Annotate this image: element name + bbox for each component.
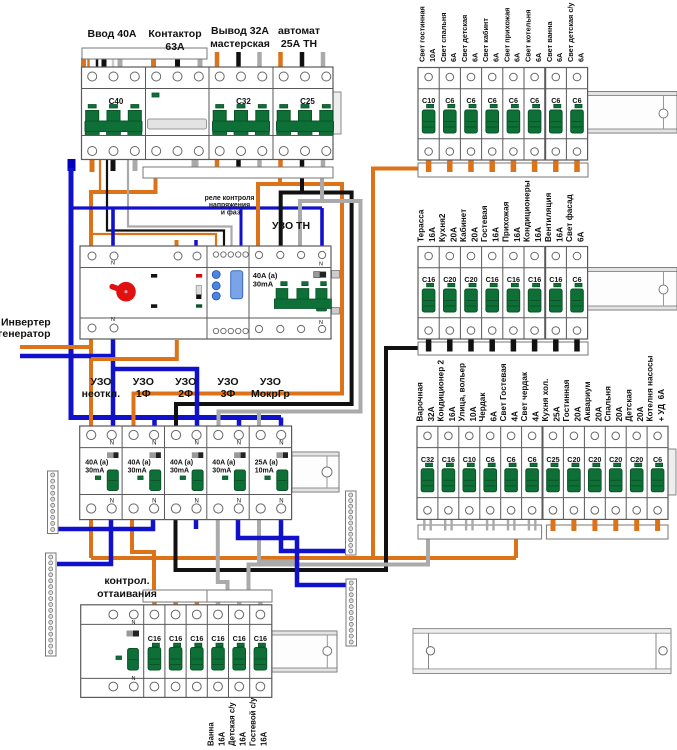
wire socket breaker 4 pins b — [492, 520, 494, 531]
wire neutral drop to relay — [240, 208, 243, 247]
wire group2 breaker 4 output — [489, 340, 495, 352]
DIN rail right of RCD row — [292, 452, 339, 492]
wire neutral drop to switch N — [111, 208, 115, 247]
RCD УЗО 2Ф 40A (a) 30mA — [170, 430, 203, 513]
svg-text:Свет спальня: Свет спальня — [439, 12, 448, 62]
breaker C16 Ванна 16А — [211, 610, 224, 691]
svg-text:C20: C20 — [609, 455, 622, 464]
svg-text:Свет котельня: Свет котельня — [524, 10, 533, 62]
svg-text:N: N — [319, 320, 323, 326]
svg-text:Гостинная: Гостинная — [562, 379, 571, 421]
RCD УЗО ТН 40A 30mA — [253, 251, 332, 332]
wire socket breaker 1 pins a — [423, 520, 425, 531]
wire L2 busbar drop — [300, 177, 304, 193]
RCD row assembly (5 УЗО) — [80, 426, 292, 520]
svg-text:C16: C16 — [169, 634, 182, 643]
svg-text:Гостевая: Гостевая — [480, 205, 489, 242]
wire УЗО 1Ф out orange — [132, 519, 154, 590]
svg-text:N: N — [237, 499, 241, 505]
empty DIN rail bottom right — [413, 629, 671, 674]
svg-text:C16: C16 — [233, 634, 246, 643]
svg-text:1Ф: 1Ф — [136, 388, 151, 400]
wire stub Вывод L1 above breaker — [215, 52, 220, 68]
wire input L3 gray stub — [133, 159, 138, 171]
svg-text:40A (a): 40A (a) — [128, 460, 151, 467]
voltage control relay (реле контроля напряжения и фаз) — [212, 252, 248, 334]
wire УЗО 2Ф out black to group2 busbar — [176, 348, 419, 570]
DIN rail stub right of 12-breaker group — [668, 449, 676, 495]
wire neutral drop to УЗО ТН N — [320, 208, 324, 248]
wire socket breaker 5 pins b — [513, 520, 515, 531]
svg-text:6А: 6А — [492, 52, 501, 62]
svg-text:C16: C16 — [549, 275, 562, 284]
breaker Котелня насосы + УД&#160;&#160;6А (C6) — [651, 432, 664, 514]
svg-text:мастерская: мастерская — [210, 38, 270, 50]
labels 12-group — [416, 382, 437, 422]
wire L1 thin link — [99, 160, 101, 192]
wire input L1 orange to transfer switch — [91, 178, 156, 247]
svg-text:N: N — [152, 499, 156, 505]
svg-text:C6: C6 — [530, 96, 539, 105]
wire feed contactor L1 — [151, 58, 156, 68]
svg-text:Кондиционер 2: Кондиционер 2 — [436, 359, 445, 421]
breaker C16 Детская с/у 16А — [233, 610, 246, 691]
svg-text:N: N — [319, 262, 323, 268]
terminal block left 2 — [46, 553, 57, 656]
wire neutral drop УЗО 3Ф — [237, 418, 242, 427]
svg-text:6А: 6А — [576, 52, 585, 62]
svg-text:C10: C10 — [422, 96, 435, 105]
svg-text:УЗО: УЗО — [90, 376, 111, 388]
svg-text:C6: C6 — [653, 455, 662, 464]
terminal block left 1 — [48, 471, 59, 534]
svg-text:N: N — [111, 317, 115, 323]
wire group4 L1 out — [278, 158, 283, 168]
RCD УЗО МокрГр 25A (a) 10mA — [255, 430, 288, 513]
svg-text:неоткл.: неоткл. — [82, 388, 121, 400]
socket 12-breaker group — [417, 426, 668, 519]
svg-text:16А: 16А — [492, 227, 501, 242]
wire socket breaker 1 pins b — [430, 520, 432, 531]
blue supply lug — [68, 159, 76, 171]
breaker Кухня хол. 25А (C25) — [546, 432, 559, 514]
wire feed contactor L2 — [175, 58, 180, 68]
svg-text:16А: 16А — [239, 731, 248, 746]
svg-text:25A (a): 25A (a) — [255, 460, 278, 467]
wire socket breaker 3 pins b — [471, 520, 473, 531]
svg-text:16А: 16А — [513, 227, 522, 242]
svg-text:4А: 4А — [511, 411, 520, 422]
wire input L2 black stub — [111, 159, 116, 171]
svg-text:2Ф: 2Ф — [178, 388, 193, 400]
svg-text:УЗО: УЗО — [175, 376, 196, 388]
svg-text:C6: C6 — [551, 96, 560, 105]
wire feed L1b — [87, 58, 90, 68]
svg-text:Аквариум: Аквариум — [583, 381, 592, 421]
wire lighting breaker 7 output — [553, 160, 559, 172]
svg-text:напряжения: напряжения — [209, 202, 250, 209]
breaker Аквариум 20А (C20) — [588, 432, 601, 514]
wire L3 drop to УЗО МокрГр — [257, 411, 261, 426]
svg-text:Гостевой с/у: Гостевой с/у — [249, 697, 258, 746]
wire group2 breaker 1 output — [426, 340, 432, 352]
svg-text:C20: C20 — [443, 275, 456, 284]
wire group2 breaker 5 output — [511, 340, 517, 352]
wire L1 thin feed to relay — [91, 234, 216, 247]
wire stub автомат L1 above breaker — [278, 52, 283, 68]
wire feed L2b — [102, 58, 107, 68]
contactor 63А — [148, 72, 207, 156]
wire switch out N branch to УЗО 2Ф — [113, 369, 197, 426]
svg-text:Свет фасад: Свет фасад — [565, 194, 574, 242]
svg-text:6А: 6А — [555, 52, 564, 62]
wire switch out L to УЗО неоткл — [89, 339, 93, 426]
wire group2 breaker 6 output — [532, 340, 538, 352]
breaker Вывод 32А мастерская (C32, 3-pole) — [213, 72, 270, 156]
breaker Свет детская 6А (C6) — [465, 73, 478, 155]
svg-text:C20: C20 — [630, 455, 643, 464]
wire socket breaker 7 output — [551, 520, 556, 532]
svg-text:N: N — [279, 499, 283, 505]
wire socket breaker 9 output — [592, 520, 597, 532]
svg-text:20А: 20А — [471, 227, 480, 242]
svg-text:C20: C20 — [567, 455, 580, 464]
top breaker row assembly — [82, 67, 334, 160]
breaker Спальня 20А (C20) — [609, 432, 622, 514]
wire N УЗО неоткл to left block2 — [57, 519, 111, 564]
wire feed L2a — [96, 58, 99, 68]
svg-text:автомат: автомат — [278, 25, 320, 37]
breaker Гостевая 16А (C16) — [486, 252, 499, 334]
transfer switch / relay / УЗО ТН assembly — [80, 246, 331, 339]
wire main orange run to sockets busbar — [91, 556, 516, 560]
svg-text:контрол.: контрол. — [104, 575, 149, 587]
svg-text:63А: 63А — [165, 41, 185, 53]
svg-text:20А: 20А — [636, 406, 645, 421]
transfer switch Q1 (Инвертер/генератор changeover) — [88, 252, 202, 332]
wire defrost breaker 2 feed — [152, 601, 157, 606]
wire orange stub to switch c3 — [175, 240, 179, 247]
wire group2 breaker 2 output — [447, 340, 453, 352]
wire switch out L branch — [91, 340, 177, 359]
RCD УЗО 3Ф 40A (a) 30mA — [212, 430, 245, 513]
wire stub Вывод L2 above breaker — [236, 52, 241, 68]
wire L2 drop to УЗО ТН and 2Ф riser — [176, 193, 352, 427]
svg-text:N: N — [132, 620, 136, 626]
DIN rail stub right of top breaker row — [333, 92, 341, 134]
wire lighting breaker 1 output — [426, 160, 432, 172]
svg-text:C16: C16 — [528, 275, 541, 284]
svg-text:C6: C6 — [527, 455, 536, 464]
busbar below top row — [143, 167, 333, 178]
breaker Улица, вольер 10А (C10) — [463, 432, 476, 514]
svg-text:40A (a): 40A (a) — [212, 460, 235, 467]
svg-text:N: N — [132, 676, 136, 682]
svg-text:16А: 16А — [428, 227, 437, 242]
svg-text:C6: C6 — [572, 96, 581, 105]
svg-text:Свет гостинная: Свет гостинная — [418, 6, 427, 62]
svg-text:Кухня2: Кухня2 — [438, 213, 447, 242]
svg-text:Терасса: Терасса — [417, 209, 426, 242]
wire feed contactor L3 — [198, 58, 203, 68]
breaker Свет фасад 6А (C6) — [571, 252, 584, 334]
wire neutral drop УЗО 1Ф — [152, 418, 157, 427]
wire defrost breaker 4 feed — [195, 601, 200, 606]
wire socket breaker 4 pins a — [486, 520, 488, 531]
breaker Детская 20А (C20) — [630, 432, 643, 514]
breaker Свет прихожая 6А (C6) — [507, 73, 520, 155]
labels defrost outgoing circuits — [207, 722, 227, 746]
wire L3 thin feed to relay — [128, 160, 232, 247]
breaker Кондиционер 2 16А (C16) — [442, 432, 455, 514]
defrost control group assembly — [81, 605, 272, 698]
svg-text:Кондиционеры: Кондиционеры — [523, 180, 532, 242]
svg-text:6А: 6А — [470, 52, 479, 62]
wire socket breaker 6 pins a — [528, 520, 530, 531]
svg-text:Кабинет: Кабинет — [458, 209, 468, 242]
wire orange riser to 12-group busbar R — [514, 539, 518, 558]
wire N УЗО 2Ф short — [194, 519, 199, 529]
wire defrost breaker 5 feed — [216, 601, 221, 606]
RCD УЗО 1Ф 40A (a) 30mA — [128, 430, 161, 513]
breaker Свет ванна 6А (C6) — [550, 73, 563, 155]
svg-text:Свет ванна: Свет ванна — [545, 21, 554, 62]
wire socket breaker 6 pins b — [534, 520, 536, 531]
wire group4 L2 out — [300, 158, 305, 168]
wire N УЗО 1Ф to left block — [56, 519, 153, 529]
wire L3 drop to УЗО ТН and 3Ф riser — [219, 201, 361, 426]
svg-text:6А: 6А — [534, 52, 543, 62]
svg-text:N: N — [195, 441, 199, 447]
svg-text:25А: 25А — [553, 406, 562, 421]
breaker Свет спальня 6А (C6) — [444, 73, 457, 155]
breaker C16 оттаивание 1 — [148, 610, 161, 691]
wire group3 L3 out — [257, 158, 262, 168]
svg-text:30mA: 30mA — [85, 468, 104, 475]
DIN rail right of second breaker group — [586, 268, 677, 311]
DIN rail clip right of transfer-switch box (bottom) — [332, 308, 340, 315]
breaker Свет гостинная 10А (C10) — [422, 73, 435, 155]
svg-text:Кухня хол.: Кухня хол. — [541, 379, 550, 422]
svg-text:C16: C16 — [507, 275, 520, 284]
svg-text:Спальня: Спальня — [604, 386, 613, 422]
svg-text:N: N — [237, 441, 241, 447]
svg-text:реле контроля: реле контроля — [205, 195, 255, 202]
wire L2 thin feed to relay — [107, 160, 224, 247]
lighting breaker group — [418, 68, 588, 161]
svg-text:32А: 32А — [427, 406, 436, 421]
wire generator input blue — [20, 354, 113, 359]
svg-text:МокрГр: МокрГр — [251, 388, 290, 400]
wire lighting breaker 2 output — [447, 160, 453, 172]
breaker Свет детская с/у 6А (C6) — [571, 73, 584, 155]
svg-text:Ванна: Ванна — [207, 722, 216, 746]
wire L1 busbar drop — [278, 177, 282, 184]
breaker Кабинет 20А (C20) — [464, 252, 477, 334]
breaker Вентиляция 16А (C16) — [549, 252, 562, 334]
wire lighting breaker 8 output — [574, 160, 580, 172]
svg-text:40A (a): 40A (a) — [170, 460, 193, 467]
svg-text:3Ф: 3Ф — [221, 388, 236, 400]
breaker Кухня2 20А (C20) — [443, 252, 456, 334]
busbar 12-group right — [546, 525, 668, 539]
svg-text:Котелня насосы: Котелня насосы — [646, 355, 655, 421]
svg-text:генератор: генератор — [0, 328, 50, 340]
DIN rail right of top lighting group — [586, 92, 677, 134]
wire switch out N to УЗО неоткл — [111, 339, 116, 426]
wire gray link to 12-group busbar L — [249, 539, 429, 590]
wire group2 breaker 8 output — [574, 340, 580, 352]
breaker C16 Гостевой с/у 16А — [254, 610, 267, 691]
svg-text:C20: C20 — [464, 275, 477, 284]
svg-text:25А ТН: 25А ТН — [281, 38, 317, 50]
svg-text:C6: C6 — [486, 455, 495, 464]
wire input L1 orange stub — [90, 159, 95, 172]
wire neutral riser left — [71, 168, 281, 418]
svg-text:C16: C16 — [442, 455, 455, 464]
svg-text:Варочная: Варочная — [416, 382, 425, 422]
wire socket breaker 5 pins a — [507, 520, 509, 531]
wire УЗО неоткл out orange — [89, 519, 93, 558]
svg-text:30mA: 30mA — [170, 468, 189, 475]
svg-text:Вентиляция: Вентиляция — [544, 193, 553, 242]
busbar top supply — [82, 48, 207, 59]
wire contactor L3 out to busbar — [192, 158, 199, 168]
svg-text:6А: 6А — [449, 52, 458, 62]
breaker Кондиционеры 16А (C16) — [528, 252, 541, 334]
wire socket breaker 2 pins b — [450, 520, 452, 531]
svg-text:16А: 16А — [218, 731, 227, 746]
svg-text:УЗО ТН: УЗО ТН — [272, 220, 310, 232]
busbar lighting group — [418, 163, 588, 177]
svg-text:C16: C16 — [254, 634, 267, 643]
wire lighting breaker 4 output — [489, 160, 495, 172]
wire УЗО МокрГр out gray — [259, 519, 295, 565]
svg-text:C25: C25 — [546, 455, 559, 464]
wire stub Вывод L3 above breaker — [257, 52, 262, 68]
wire feed L3b — [118, 58, 123, 68]
svg-text:6А: 6А — [490, 411, 499, 422]
svg-text:20А: 20А — [615, 406, 624, 421]
svg-text:УЗО: УЗО — [133, 376, 154, 388]
svg-text:C20: C20 — [588, 455, 601, 464]
wire stub автомат L3 above breaker — [321, 52, 326, 68]
breaker Свет Гостевая 4А (C6) — [505, 432, 518, 514]
svg-text:УЗО: УЗО — [217, 376, 238, 388]
svg-text:C6: C6 — [506, 455, 515, 464]
wire feed L3a — [112, 58, 115, 68]
terminal block right 1 — [346, 491, 357, 555]
svg-text:30mA: 30mA — [128, 468, 147, 475]
breaker Свет чердак 4А (C6) — [526, 432, 539, 514]
labels second group — [417, 209, 438, 242]
svg-text:+ УД 6А: + УД 6А — [657, 389, 666, 422]
wire stub автомат L2 above breaker — [300, 52, 305, 68]
svg-text:C16: C16 — [211, 634, 224, 643]
svg-text:C16: C16 — [486, 275, 499, 284]
wire group2 breaker 3 output — [468, 340, 474, 352]
wire group4 L3 out — [321, 158, 326, 168]
svg-text:Свет Гостевая: Свет Гостевая — [499, 363, 508, 421]
busbar defrost group — [143, 590, 272, 602]
busbar group2 — [418, 342, 588, 355]
wire L1 drop to УЗО ТН and 1Ф riser — [134, 184, 343, 426]
wire N УЗО 3Ф to right block4 — [238, 519, 348, 585]
svg-text:Инвертер: Инвертер — [1, 317, 51, 329]
svg-text:C6: C6 — [572, 275, 581, 284]
svg-text:и фаз: и фаз — [221, 209, 241, 216]
second breaker group — [418, 247, 588, 340]
svg-text:30mA: 30mA — [212, 468, 231, 475]
svg-text:10А: 10А — [469, 406, 478, 421]
wire L3 busbar drop — [320, 177, 324, 201]
svg-text:20А: 20А — [449, 227, 458, 242]
svg-text:4А: 4А — [532, 411, 541, 422]
svg-text:16А: 16А — [534, 227, 543, 242]
wire defrost breaker 7 feed — [258, 601, 263, 606]
svg-text:Свет чердак: Свет чердак — [520, 371, 529, 421]
RCD defrost control (контрол. оттаивания) — [109, 610, 139, 691]
wire socket breaker 3 pins a — [465, 520, 467, 531]
svg-text:УЗО: УЗО — [260, 376, 281, 388]
svg-text:6А: 6А — [513, 52, 522, 62]
svg-text:N: N — [110, 499, 114, 505]
svg-text:Вывод 32А: Вывод 32А — [211, 25, 269, 37]
svg-text:C6: C6 — [488, 96, 497, 105]
wire socket breaker 12 output — [655, 520, 660, 532]
svg-text:10mA: 10mA — [255, 468, 274, 475]
breaker Варочная 32А (C32) — [421, 432, 434, 514]
svg-text:N: N — [111, 261, 115, 267]
breaker Гостинная 20А (C20) — [567, 432, 580, 514]
svg-text:Свет прихожая: Свет прихожая — [502, 8, 511, 62]
svg-text:16А: 16А — [555, 227, 564, 242]
svg-text:N: N — [195, 499, 199, 505]
svg-text:C16: C16 — [190, 634, 203, 643]
svg-text:30mA: 30mA — [253, 280, 274, 289]
svg-text:20А: 20А — [573, 406, 582, 421]
DIN rail clip right of transfer-switch box (top) — [332, 271, 340, 279]
wire socket breaker 8 output — [571, 520, 576, 532]
svg-text:Контактор: Контактор — [148, 28, 201, 40]
breaker Прихожая 16А (C16) — [507, 252, 520, 334]
wire defrost breaker 3 feed — [173, 601, 178, 606]
breaker C16 оттаивание 2 — [169, 610, 182, 691]
svg-text:N: N — [110, 441, 114, 447]
svg-text:Свет детская с/у: Свет детская с/у — [566, 2, 575, 62]
wire generator input orange — [20, 345, 91, 349]
wire lighting breaker 5 output — [511, 160, 517, 172]
svg-text:Свет детская: Свет детская — [460, 15, 469, 62]
wire neutral horizontal bus — [71, 206, 322, 209]
svg-text:Свет кабинт: Свет кабинт — [481, 18, 490, 62]
wire socket breaker 11 output — [634, 520, 639, 532]
svg-text:C6: C6 — [509, 96, 518, 105]
terminal block right 2 — [346, 579, 357, 646]
svg-text:16А: 16А — [260, 731, 269, 746]
svg-text:C32: C32 — [421, 455, 434, 464]
breaker Чердак 6А (C6) — [484, 432, 497, 514]
svg-text:6А: 6А — [577, 231, 586, 242]
wire group2 breaker 7 output — [553, 340, 559, 352]
wire neutral drop УЗО МокрГр — [279, 418, 284, 427]
DIN rail right of bottom group — [272, 631, 337, 672]
wire group3 L1 out — [215, 158, 220, 168]
wire socket breaker 10 output — [613, 520, 618, 532]
wire lighting breaker 3 output — [468, 160, 474, 172]
svg-text:16А: 16А — [448, 406, 457, 421]
svg-text:Детская с/у: Детская с/у — [228, 702, 237, 746]
